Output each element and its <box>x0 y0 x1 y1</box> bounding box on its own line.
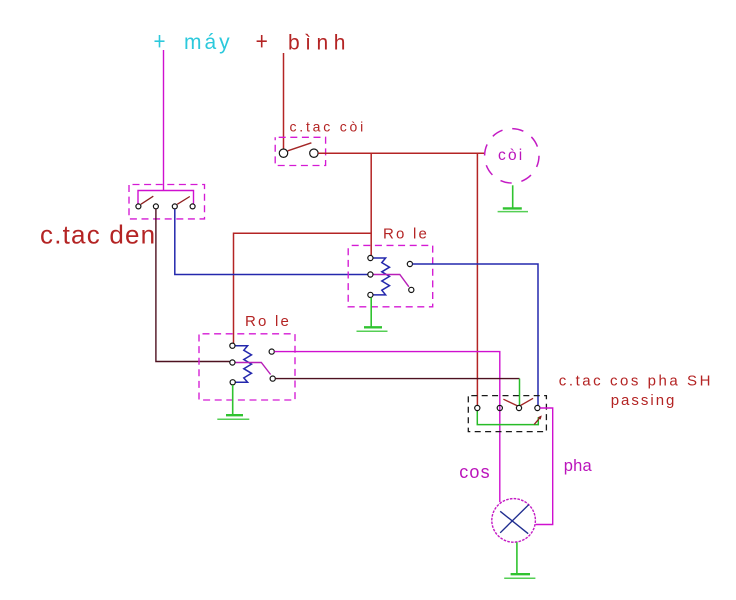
wire blue from den pin3 down and right to relay 1 common <box>175 209 368 274</box>
svg-text:c.tac còi: c.tac còi <box>290 118 367 134</box>
switch c.tac den pin 2 <box>153 204 158 209</box>
wire magenta from +may down to c.tac den <box>163 50 165 191</box>
svg-text:passing: passing <box>611 392 677 409</box>
relay 2 coil zigzag <box>235 346 252 383</box>
wire green from maroon wire down to cos pha pin 3 <box>519 379 521 406</box>
svg-text:máy: máy <box>184 31 233 54</box>
wire red branch down to relay 1 coil <box>370 153 372 255</box>
wire magenta from relay 2 contact top to cos pha pin 2 and down to lamp <box>274 352 499 502</box>
relay 2 pin contact bottom <box>270 376 275 381</box>
svg-text:Ro le: Ro le <box>383 226 429 243</box>
switch c.tac den arm 1 <box>141 196 154 204</box>
relay 1 pin coil top <box>368 255 373 260</box>
relay 2 dashed box <box>199 334 295 400</box>
switch cos pha green passing link <box>477 411 538 425</box>
horn coi dashed circle <box>485 129 539 183</box>
svg-text:c.tac cos pha SH: c.tac cos pha SH <box>559 373 713 390</box>
relay 2 pin contact top <box>269 349 274 354</box>
switch cos pha passing arrow maroon <box>534 415 542 424</box>
switch cos pha pin 3 <box>516 405 521 410</box>
switch cos pha pin 1 <box>475 405 480 410</box>
switch c.tac den arm 2 <box>177 197 190 205</box>
wire maroon from relay 2 contact bottom to cos pha <box>275 378 519 380</box>
wire red from c.tac coi to horn coi <box>318 152 484 154</box>
svg-text:còi: còi <box>498 147 524 164</box>
switch c.tac den feed bus <box>138 191 194 204</box>
switch c.tac coi pin 1 <box>279 149 287 157</box>
relay 1 dashed box <box>348 245 433 306</box>
relay 2 pin coil top <box>230 343 235 348</box>
node +binh plus symbol <box>257 35 267 47</box>
ground under horn coi <box>498 185 528 211</box>
relay 2 pin common <box>230 360 235 365</box>
relay 2 pin coil bottom <box>230 380 235 385</box>
svg-text:bình: bình <box>288 32 351 55</box>
wire red from +binh down to c.tac coi <box>283 53 285 149</box>
wire blue from relay 1 contact to cos pha pin 4 <box>413 264 539 405</box>
switch c.tac den pin 4 <box>190 204 195 209</box>
relay 1 pin common <box>368 272 373 277</box>
ground under lamp <box>504 542 535 578</box>
wire red branch left and down to relay 2 coil <box>234 233 372 343</box>
relay 1 pin coil bottom <box>368 292 373 297</box>
svg-text:Ro le: Ro le <box>245 313 291 330</box>
relay 1 arm magenta <box>373 275 409 287</box>
switch c.tac den pin 3 <box>172 204 177 209</box>
switch cos pha arm V red <box>503 398 533 406</box>
svg-text:pha: pha <box>564 457 593 475</box>
switch cos pha pin 4 <box>535 405 540 410</box>
lamp circle magenta <box>492 499 536 543</box>
ground under relay 1 <box>357 298 388 332</box>
switch cos pha pin 2 <box>497 405 502 410</box>
svg-text:c.tac den: c.tac den <box>40 220 156 250</box>
switch c.tac coi dashed box <box>275 137 325 165</box>
relay 1 pin contact top <box>407 261 412 266</box>
relay 1 pin contact bottom <box>409 287 414 292</box>
switch c.tac coi arm <box>288 143 312 151</box>
lamp X blue <box>500 505 529 534</box>
svg-text:cos: cos <box>459 462 491 482</box>
relay 2 arm magenta <box>235 363 270 375</box>
switch c.tac cos pha dashed box black <box>468 396 546 432</box>
wire magenta pha from cos pha pin 4 to lamp <box>536 408 553 525</box>
switch c.tac den pin 1 <box>136 204 141 209</box>
ground under relay 2 <box>217 385 249 419</box>
relay 1 coil zigzag <box>373 258 390 295</box>
switch c.tac den dashed box <box>129 185 205 219</box>
wire maroon from den pin2 down and right to relay 2 common <box>156 209 230 362</box>
switch c.tac coi pin 2 <box>310 149 318 157</box>
wire red branch down to c.tac cos pha pin 1 <box>476 153 478 405</box>
node +may plus symbol <box>155 35 165 47</box>
